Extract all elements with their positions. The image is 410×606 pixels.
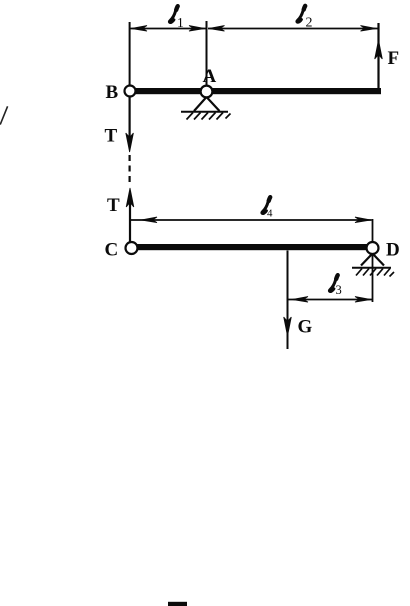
svg-text:D: D [386,240,400,261]
svg-text:C: C [105,240,119,261]
svg-text:F: F [388,48,400,69]
stray slash mark at left edge [0,106,7,124]
force F arrowhead [375,40,383,59]
svg-text:4: 4 [267,207,273,219]
dashed string segment [129,155,131,186]
tension T arrowhead down [126,133,134,152]
svg-text:1: 1 [177,15,184,30]
tension T arrowhead up [126,188,134,207]
svg-text:3: 3 [336,283,342,297]
pin A [201,86,213,98]
dimension line l2 [208,28,378,30]
svg-text:A: A [203,66,217,87]
extension line above A [206,21,208,86]
label l2 [297,5,313,30]
beam CD [136,244,367,250]
pin C [126,242,138,254]
string segment below B [129,97,131,141]
beam AB [134,88,381,94]
support triangle at A [194,97,220,111]
cropped black mark at bottom edge [168,602,187,606]
hatching at D [356,269,394,277]
label l3 [329,275,341,297]
hatching at A [187,113,231,120]
label l4 [262,197,273,220]
arrowhead l1 left [131,26,147,32]
force G line [287,251,289,350]
support triangle at D [361,254,384,266]
svg-text:B: B [106,82,119,103]
extension line through D [372,219,374,302]
extension line right end / F line [377,23,379,89]
force G arrowhead [284,317,292,336]
dimension line l3 [288,299,372,301]
string segment above C [129,203,131,243]
dimension line l1 [131,28,206,30]
svg-text:2: 2 [306,15,313,30]
arrowhead l2 left [209,26,225,32]
arrowhead l1 right [189,26,205,32]
pin D [367,242,379,254]
svg-text:T: T [107,195,120,216]
dimension line l4 [130,219,372,221]
arrowhead l3 left [292,297,308,303]
arrowhead l3 right [355,297,371,303]
label l1 [169,6,183,30]
arrowhead l4 right [355,217,371,223]
arrowhead l4 left [141,217,157,223]
svg-text:G: G [298,317,313,338]
svg-text:T: T [105,126,118,147]
support base line at A [181,111,228,113]
extension line above B [129,22,131,86]
support base line at D [352,267,391,269]
pin B [125,86,136,97]
arrowhead l2 right [361,26,377,32]
